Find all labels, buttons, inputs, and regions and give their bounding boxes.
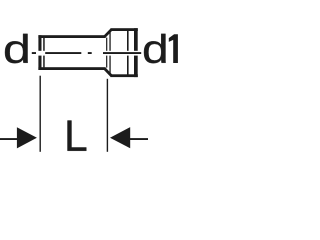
label L [68,121,87,151]
label d1 (1 part, custom helvetica-style digit) [169,34,178,63]
dimension leader right [130,138,148,140]
socket shoulder line A (upper) [106,38,107,51]
label d [5,34,28,63]
socket right end face (lower segment) [134,56,138,78]
socket bottom chamfer [105,69,112,76]
sleeve body top edge [38,35,105,38]
sleeve left end face (lower segment) [38,56,41,70]
socket bead line (lower) [127,56,129,75]
socket right end face (upper segment) [134,28,138,51]
socket top edge [110,28,137,31]
centerline dash (left of sleeve) [32,52,36,54]
dimension extension line left [40,76,41,152]
socket shoulder line B (lower) [109,56,110,74]
socket bead line (upper) [127,31,129,51]
dimension arrow right [110,127,130,148]
socket shoulder line A (lower) [106,56,107,68]
sleeve left end face (upper segment) [38,35,41,51]
centerline dot [88,52,92,54]
socket top chamfer [105,30,112,37]
dimension leader left [0,138,18,140]
centerline long dash (inside sleeve) [45,52,81,54]
socket bottom edge [110,74,137,77]
label d1 (d part) [144,34,166,63]
dimension extension line right [107,79,108,152]
dimension arrow left [17,127,37,148]
left end inner wall line (upper) [43,38,45,51]
sleeve body bottom edge [38,67,105,70]
centerline long dash (socket, to d1) [103,52,141,54]
socket shoulder line B (upper) [109,32,110,51]
left end inner wall line (lower) [43,56,45,68]
